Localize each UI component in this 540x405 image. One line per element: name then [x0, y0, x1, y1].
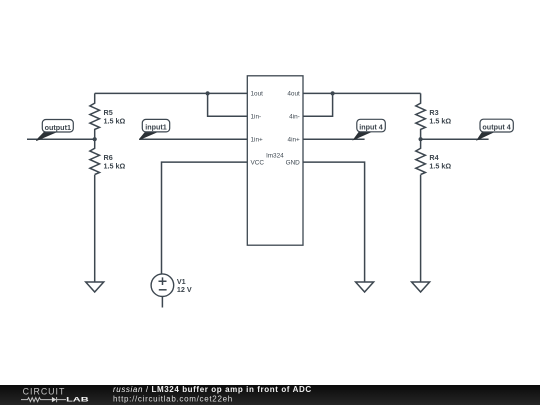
svg-text:CIRCUIT: CIRCUIT [23, 386, 65, 396]
ground (left, under R6) [86, 282, 104, 292]
svg-text:russian / LM324 buffer op amp: russian / LM324 buffer op amp in front o… [113, 385, 312, 394]
svg-text:1.5 kΩ: 1.5 kΩ [104, 116, 126, 125]
resistor R5 [90, 93, 100, 139]
wire feedback right (4out to 4in-) [303, 93, 333, 116]
footer bar [0, 385, 540, 405]
IC lm324 box [247, 76, 303, 245]
ground (under R4) [412, 282, 430, 292]
svg-text:GND: GND [286, 159, 301, 166]
resistor R3 [416, 93, 426, 139]
node junction 1out [206, 91, 210, 95]
node input 4 flag [354, 119, 386, 139]
svg-text:4in+: 4in+ [288, 137, 301, 144]
svg-text:VCC: VCC [251, 159, 265, 166]
wire feedback left (1out to 1in-) [208, 93, 248, 116]
svg-text:1.5 kΩ: 1.5 kΩ [429, 162, 451, 171]
svg-text:input 4: input 4 [359, 123, 383, 132]
svg-text:LAB: LAB [66, 397, 89, 404]
voltage source V1 [151, 274, 174, 308]
svg-text:input1: input1 [145, 123, 167, 132]
node output 4 flag [477, 119, 513, 140]
node junction 4out [331, 91, 335, 95]
wire input1 to 1in+ [139, 138, 247, 140]
svg-text:1.5 kΩ: 1.5 kΩ [104, 162, 126, 171]
node junction at R5/R6 [93, 137, 97, 141]
wire 4in+ stub [303, 138, 365, 140]
logo wire + resistor + diode [21, 397, 66, 402]
svg-text:1in+: 1in+ [251, 137, 264, 144]
svg-text:1out: 1out [251, 91, 264, 98]
node junction at R3/R4 [419, 137, 423, 141]
wire R4 bottom to ground [420, 175, 422, 282]
wire left output1 horizontal [27, 138, 95, 140]
svg-text:12 V: 12 V [177, 285, 192, 294]
svg-text:output1: output1 [45, 123, 71, 132]
resistor R6 [90, 139, 100, 174]
wire GND to ground [303, 162, 365, 282]
svg-text:4in-: 4in- [289, 114, 300, 121]
resistor R4 [416, 139, 426, 174]
svg-text:http://circuitlab.com/cet22eh: http://circuitlab.com/cet22eh [113, 395, 233, 404]
node output1 flag [36, 120, 73, 141]
ground (under GND pin) [356, 282, 374, 292]
svg-text:output 4: output 4 [482, 123, 510, 132]
wire top-left (R5 top to 1out pin) [95, 92, 248, 94]
wire R6 bottom to ground [94, 175, 96, 282]
svg-text:1.5 kΩ: 1.5 kΩ [429, 116, 451, 125]
svg-text:4out: 4out [287, 91, 300, 98]
node input1 flag [139, 119, 169, 139]
svg-text:lm324: lm324 [266, 152, 284, 159]
wire VCC to V1 [162, 162, 248, 274]
wire output 4 [421, 138, 489, 140]
wire top-right (4out to R3 top) [303, 92, 421, 94]
svg-text:1in-: 1in- [251, 114, 262, 121]
